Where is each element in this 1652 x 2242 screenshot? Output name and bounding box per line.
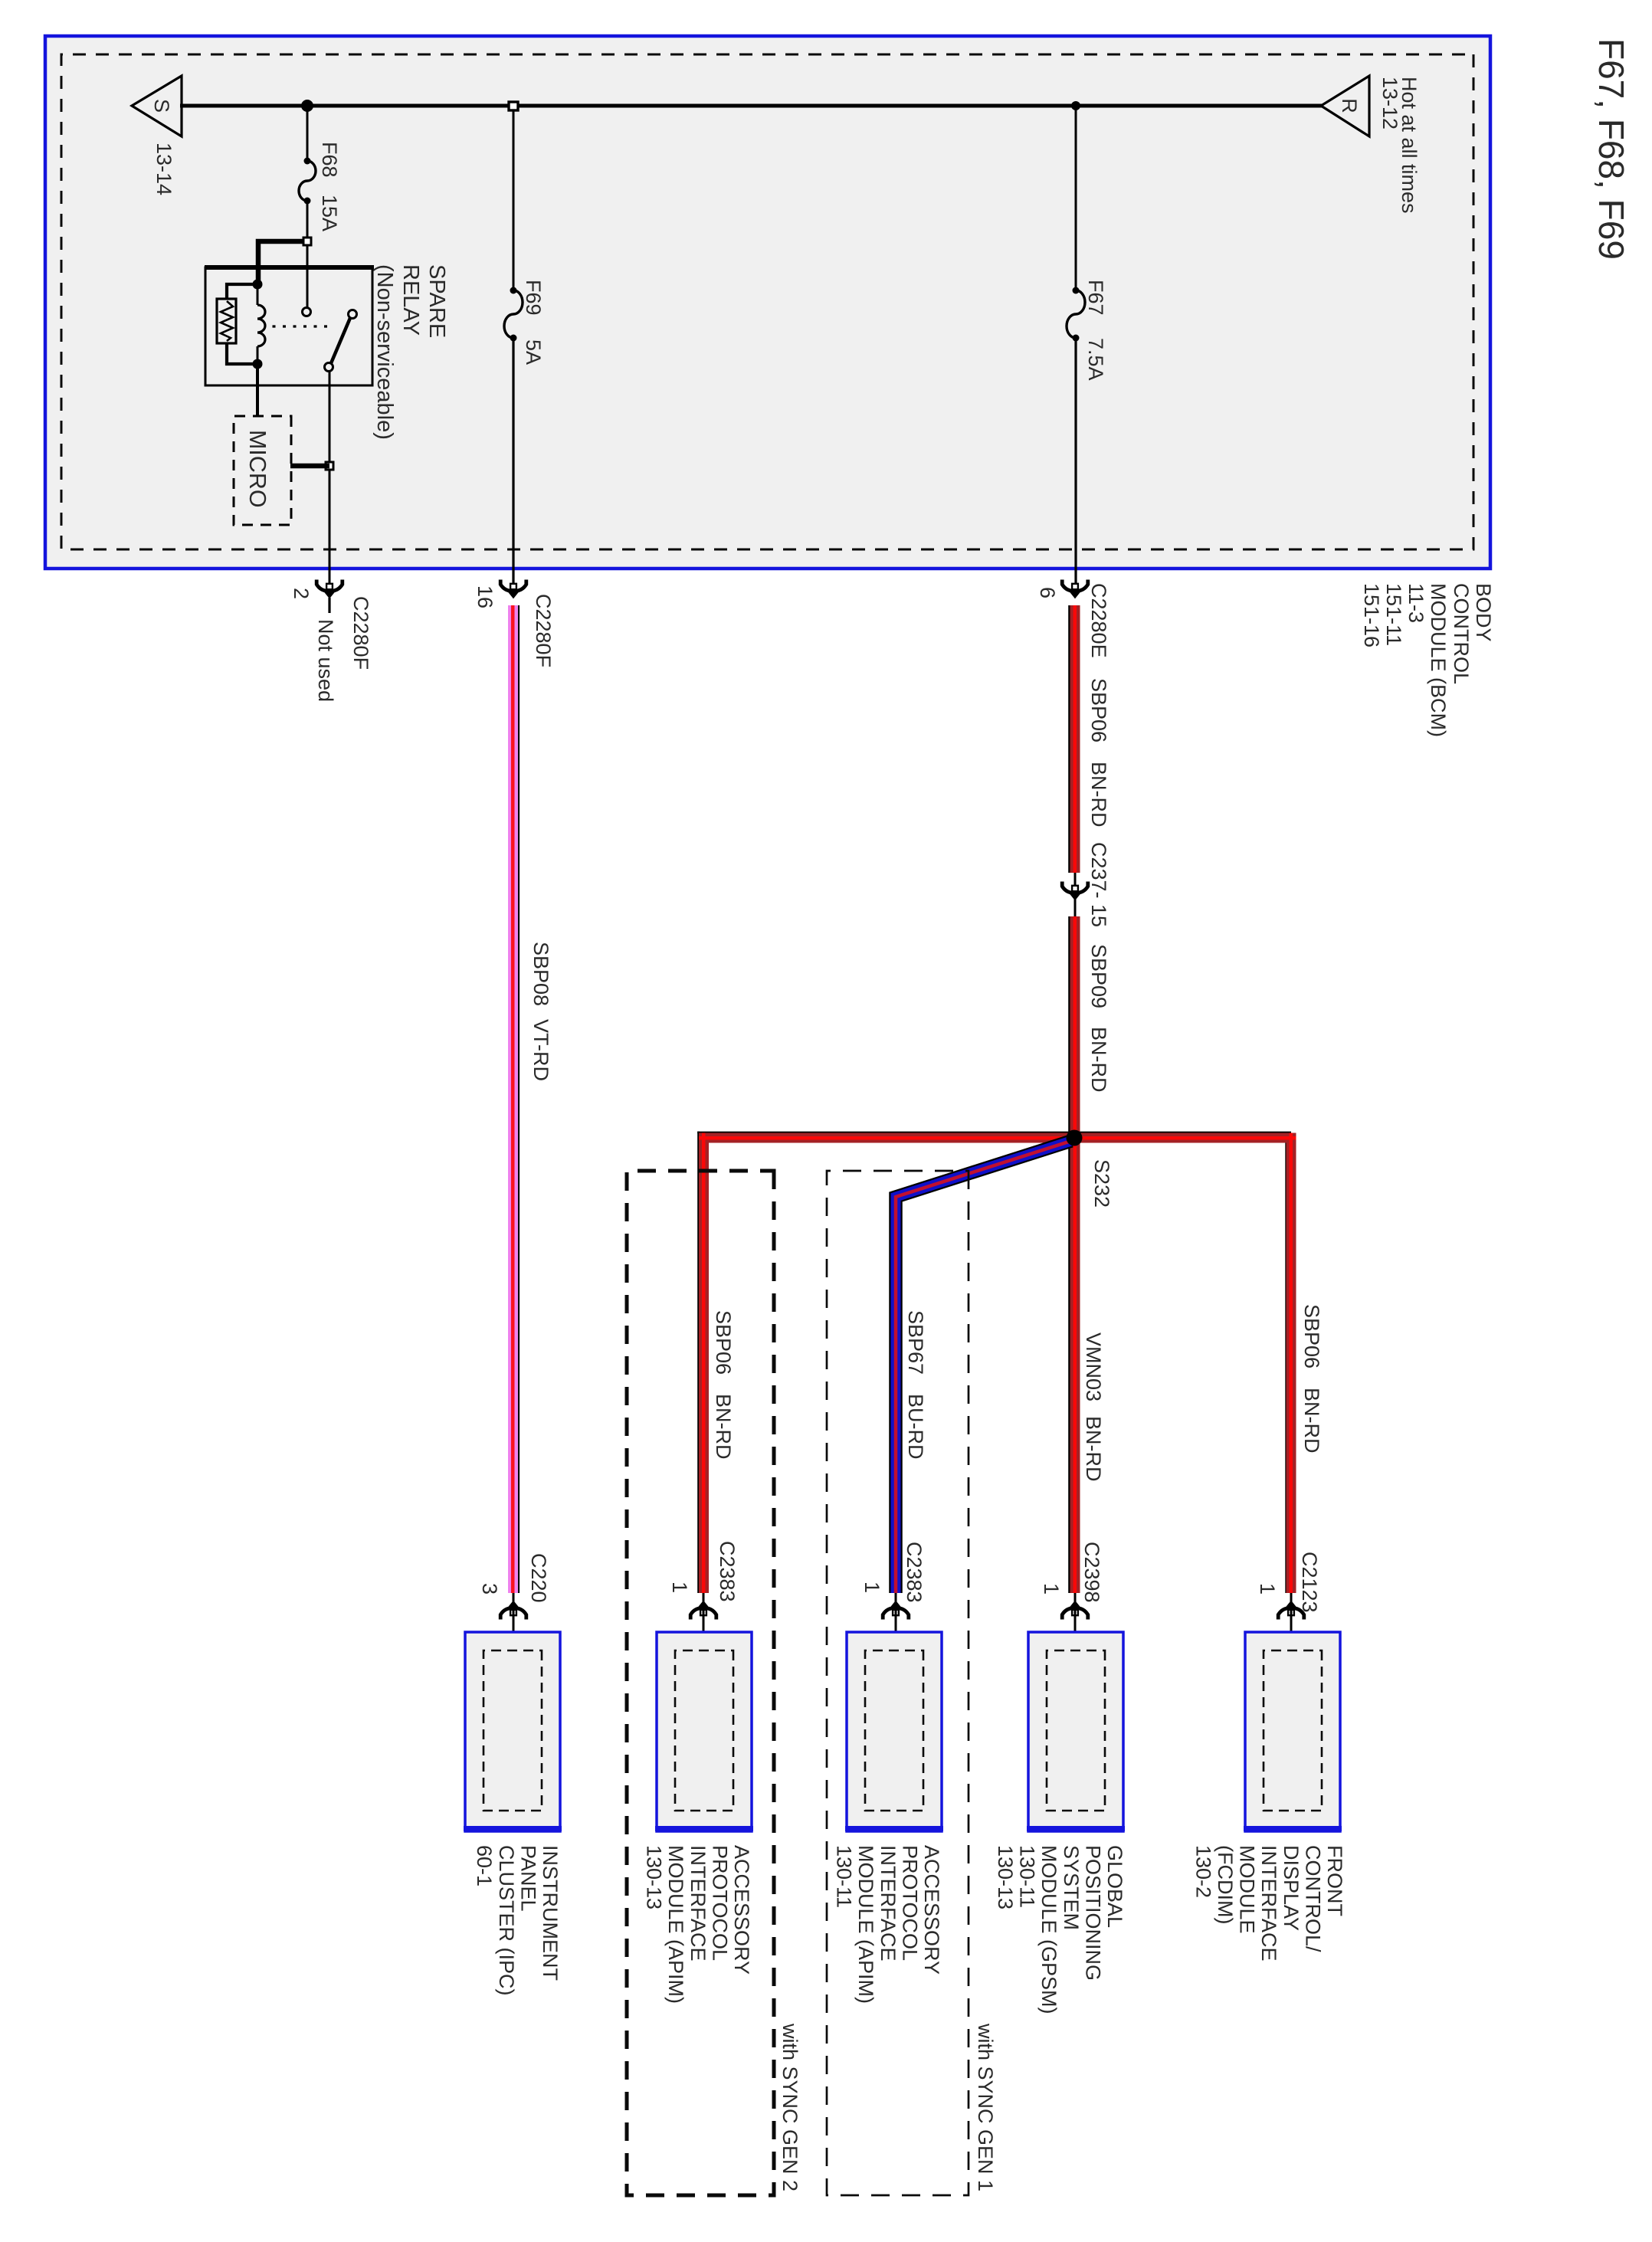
dashed option box with SYNC GEN 1 [827,1171,969,2195]
svg-text:PROTOCOL: PROTOCOL [708,1845,731,1961]
svg-text:C2280F: C2280F [349,596,372,670]
relay coil node A [253,280,263,290]
svg-text:MODULE (APIM): MODULE (APIM) [854,1845,877,2004]
svg-text:C237- 15: C237- 15 [1087,842,1110,927]
power out triangle S [132,76,182,136]
svg-text:BODY: BODY [1472,583,1495,642]
svg-text:SYSTEM: SYSTEM [1060,1845,1083,1930]
svg-text:R: R [1338,98,1361,113]
svg-text:7.5A: 7.5A [1084,338,1107,381]
svg-text:151-16: 151-16 [1360,583,1383,647]
dashed option box with SYNC GEN 2 [627,1171,774,2195]
wire fuse F68 to relay switch contact [306,201,309,310]
module box GPSM [1027,1632,1125,1831]
svg-text:SBP06: SBP06 [712,1310,735,1375]
svg-text:with SYNC GEN 2: with SYNC GEN 2 [778,2023,801,2191]
svg-text:F67, F68, F69: F67, F68, F69 [1591,38,1631,260]
svg-text:PROTOCOL: PROTOCOL [898,1845,921,1961]
label GLOBAL POSITIONING SYSTEM MODULE (GPSM) 130-11 130-13 [994,1845,1126,2014]
svg-text:130-13: 130-13 [643,1845,666,1909]
label FRONT CONTROL/ DISPLAY INTERFACE MODULE (FCDIM) 130-2 [1191,1845,1346,1962]
svg-text:SBP67: SBP67 [904,1310,927,1375]
svg-text:MODULE: MODULE [1236,1845,1259,1934]
GPSM connector 1 C2398 [1062,1601,1088,1619]
svg-text:BN-RD: BN-RD [1300,1388,1323,1454]
svg-text:SBP09: SBP09 [1087,944,1110,1008]
module box APIM gen1 [845,1632,943,1831]
resistor parallel wiring [227,284,257,299]
inline connector C237-15 [1074,873,1077,916]
BCM power distribution box [45,36,1490,569]
svg-text:BN-RD: BN-RD [712,1394,735,1460]
svg-text:6: 6 [1036,587,1059,598]
wire fuse F67 to connector C2280E [1074,338,1077,590]
svg-text:1: 1 [860,1582,883,1593]
svg-text:CLUSTER (IPC): CLUSTER (IPC) [495,1845,518,1996]
svg-text:RELAY: RELAY [398,264,423,336]
svg-text:C2280E: C2280E [1087,583,1110,658]
APIM g2 connector 1 C2383 [690,1601,716,1619]
svg-text:F67: F67 [1084,280,1107,316]
wire SBP08 VT-RD (pink) [518,605,520,1593]
wire SBP06 BN-RD branch to FCDIM [1075,1132,1291,1134]
svg-text:ACCESSORY: ACCESSORY [730,1845,753,1975]
BCM inner dashed border [61,54,1473,549]
svg-text:1: 1 [1256,1583,1279,1595]
svg-text:with SYNC GEN 1: with SYNC GEN 1 [974,2023,997,2191]
svg-text:151-11: 151-11 [1382,583,1405,646]
node on bus for F67 [1071,101,1080,110]
svg-text:S232: S232 [1090,1159,1113,1208]
node on bus for F68 [301,100,313,112]
svg-text:5A: 5A [522,339,545,365]
label INSTRUMENT PANEL CLUSTER (IPC) 60-1 [473,1845,562,1996]
wire F67 branch [1075,106,1077,290]
exit connector 6 C2280E [1062,580,1088,598]
svg-text:13-14: 13-14 [152,143,175,195]
svg-text:130-13: 130-13 [994,1845,1017,1909]
svg-text:C2383: C2383 [903,1542,926,1603]
svg-text:SBP06: SBP06 [1087,678,1110,742]
svg-text:INTERFACE: INTERFACE [687,1845,710,1962]
relay switch blade [349,310,357,319]
thick feed to relay coil [258,241,303,284]
module box FCDIM [1244,1632,1342,1831]
wire SBP67 BU-RD branch to APIM sync gen 1 [896,1141,1071,1593]
svg-text:F68: F68 [318,142,341,178]
svg-text:POSITIONING: POSITIONING [1081,1845,1104,1981]
FCDIM connector 1 C2123 [1278,1601,1304,1619]
wire relay coil to MICRO [256,364,259,416]
svg-text:SBP06: SBP06 [1300,1304,1323,1368]
svg-text:130-2: 130-2 [1191,1845,1214,1898]
svg-text:13-12: 13-12 [1378,77,1401,129]
svg-text:MODULE (GPSM): MODULE (GPSM) [1037,1845,1060,2014]
bus wire (hot at all times) [180,104,1323,108]
svg-text:1: 1 [1040,1583,1063,1595]
relay box SPARE RELAY [205,267,372,385]
svg-text:Not used: Not used [314,619,337,702]
exit connector 16 C2280F [500,580,526,598]
MICRO box [234,416,291,525]
module box IPC [464,1632,562,1831]
relay switch fixed contact [303,308,311,316]
svg-text:11-3: 11-3 [1405,583,1427,623]
svg-text:BN-RD: BN-RD [1082,1416,1105,1482]
svg-text:C2280F: C2280F [532,594,555,667]
svg-text:MICRO: MICRO [244,430,270,508]
relay coil inductor [257,284,259,305]
svg-text:C2383: C2383 [716,1541,739,1602]
fuse F67 7.5A [1073,287,1080,294]
wire SBP06 BN-RD segment 1 [1068,605,1070,873]
svg-text:FRONT: FRONT [1323,1845,1346,1916]
splice junction S232 [1067,1130,1083,1146]
svg-text:VT-RD: VT-RD [529,1019,552,1081]
wire relay switch to exit 2 [329,371,331,590]
svg-text:3: 3 [478,1583,501,1595]
svg-text:MODULE (APIM): MODULE (APIM) [664,1845,687,2004]
svg-text:C2123: C2123 [1298,1552,1321,1613]
svg-text:SPARE: SPARE [424,264,449,338]
IPC connector 3 C220 [500,1601,526,1619]
junction pad on F68 wire [303,238,311,245]
wire F68 branch [306,106,309,161]
wire fuse F69 to connector C2280F [512,338,514,590]
relay coil resistor [217,299,236,343]
svg-text:C2398: C2398 [1080,1542,1103,1603]
svg-text:16: 16 [474,585,497,608]
relay coil node B [253,359,263,369]
power feed triangle R [1321,76,1369,136]
svg-text:BN-RD: BN-RD [1087,1027,1110,1093]
svg-text:60-1: 60-1 [473,1845,496,1886]
svg-text:2: 2 [290,588,313,599]
label ACCESSORY PROTOCOL INTERFACE MODULE (APIM) 130-13 [643,1845,753,2004]
svg-text:S: S [150,99,173,113]
svg-text:INTERFACE: INTERFACE [1257,1845,1280,1962]
svg-text:ACCESSORY: ACCESSORY [920,1845,943,1975]
thick link to MICRO [290,464,329,469]
svg-text:MODULE (BCM): MODULE (BCM) [1427,583,1450,737]
svg-text:BN-RD: BN-RD [1087,762,1110,828]
wire SBP06 BN-RD branch to APIM sync gen 2 [697,1132,1075,1134]
module box APIM gen2 [655,1632,753,1831]
APIM g1 connector 1 C2383 [883,1601,909,1619]
fuse F69 5A [510,287,517,294]
label BODY CONTROL MODULE (BCM) refs [1360,583,1495,737]
svg-text:F69: F69 [522,280,545,316]
svg-text:15A: 15A [318,195,341,231]
label ACCESSORY PROTOCOL INTERFACE MODULE (APIM) 130-11 [833,1845,943,2004]
svg-text:PANEL: PANEL [516,1845,539,1912]
svg-text:CONTROL/: CONTROL/ [1301,1845,1324,1952]
svg-text:SBP08: SBP08 [529,942,552,1006]
svg-text:(FCDIM): (FCDIM) [1214,1845,1237,1924]
svg-text:INSTRUMENT: INSTRUMENT [539,1845,562,1981]
svg-text:CONTROL: CONTROL [1450,583,1473,684]
svg-text:130-11: 130-11 [1016,1845,1039,1908]
junction pad to MICRO [326,462,333,470]
fuse F68 15A [304,158,311,165]
wire F69 branch [513,106,515,290]
node on bus for F69 [509,102,518,110]
svg-text:C220: C220 [527,1553,550,1603]
svg-text:VMN03: VMN03 [1082,1332,1105,1401]
svg-text:DISPLAY: DISPLAY [1280,1845,1303,1931]
svg-text:130-11: 130-11 [833,1845,856,1908]
relay actuation dotted link [268,325,327,327]
svg-text:(Non-serviceable): (Non-serviceable) [372,264,397,440]
svg-text:BU-RD: BU-RD [904,1394,927,1460]
svg-text:1: 1 [668,1582,691,1593]
exit connector 2 C2280F Not used [316,580,343,598]
wire SBP09 BN-RD to junction and GPSM [1068,916,1070,1593]
svg-text:INTERFACE: INTERFACE [877,1845,900,1962]
svg-text:GLOBAL: GLOBAL [1103,1845,1126,1928]
